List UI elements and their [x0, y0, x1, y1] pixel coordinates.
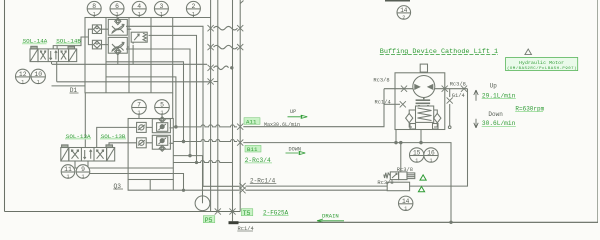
svg-text:1: 1 [404, 206, 407, 212]
coupling X at B11 start [237, 140, 243, 146]
marker green triangle 1 [420, 175, 426, 180]
svg-text:15: 15 [413, 150, 421, 157]
svg-text:1: 1 [415, 158, 418, 164]
wire: corridor nest w3 [149, 35, 197, 162]
wire: top exit to trunk [173, 17, 211, 19]
svg-text:2: 2 [191, 3, 195, 10]
pilot check valve PC1 [152, 119, 170, 133]
balloon 7 [132, 100, 147, 115]
label T5 [241, 209, 253, 217]
hose H3 flexible hose to pipe 3 [208, 65, 214, 71]
svg-text:Rc3/8: Rc3/8 [397, 167, 413, 173]
wire: trunk vertical pipe 1 [210, 0, 212, 212]
solenoid valve SOL-14 top tabs [31, 46, 37, 49]
wire: motor right port line [435, 88, 468, 90]
reducing valve RV1 [131, 32, 147, 42]
wire: brake valve feed from B11 [400, 143, 402, 172]
wire: G1/4 gauge stub [449, 89, 451, 126]
svg-text:1: 1 [192, 11, 195, 17]
arrow down [474, 119, 478, 128]
svg-text:11: 11 [64, 166, 72, 173]
wire: brake internal connects [409, 110, 437, 127]
wire: balloon leaders to manifold top [94, 15, 193, 17]
wire: corridor nest w2 [126, 26, 203, 186]
svg-text:1: 1 [81, 174, 84, 180]
wire: D1 block left drop to SOL-13 [84, 93, 86, 147]
label SOL-14B [56, 38, 82, 45]
solenoid SOL-14A coil [30, 49, 38, 62]
pilot check valve PC2 [152, 135, 170, 149]
svg-text:2: 2 [402, 15, 405, 21]
svg-text:T5: T5 [243, 210, 251, 217]
balloon 9 [76, 165, 90, 179]
balloon 12 [16, 69, 30, 83]
hose H1 flexible hose with couplings [208, 25, 214, 31]
label R=630rpm [515, 105, 544, 112]
wire: pilot line pair to brake valve subplate [246, 186, 388, 190]
label 2-FG25A [263, 209, 289, 216]
svg-text:G1/4: G1/4 [452, 93, 465, 99]
svg-text:1: 1 [138, 11, 141, 17]
wire: SOL-14 P rail [52, 62, 208, 65]
wire: Rc1/4 plugged stub [384, 103, 400, 105]
arrow up [474, 90, 478, 101]
label A11 [244, 118, 260, 126]
brake valve subplate [387, 182, 409, 191]
wire: right margin stub [597, 0, 599, 222]
motor M1 drive shaft [420, 64, 427, 72]
hose H2 flexible hose with couplings [208, 44, 214, 50]
svg-text:Down: Down [488, 111, 503, 118]
orifice left diamond [406, 113, 413, 122]
check valve CV4 (lower block lower) [137, 138, 147, 148]
svg-text:1: 1 [21, 79, 24, 85]
brake B1 disc stack [416, 98, 431, 107]
wire: P5 supply line horizontal [5, 211, 241, 213]
svg-text:1: 1 [137, 110, 140, 116]
wire: trunk vertical pipe 2 [217, 0, 219, 212]
label 2-Rc1/4 [250, 178, 276, 185]
svg-text:14: 14 [400, 7, 408, 14]
label box Hydraulic Motor [506, 58, 578, 71]
manifold D1 partition 1 [105, 18, 107, 93]
hydraulic motor M1 enclosure box [395, 73, 445, 130]
label B11 [245, 145, 261, 153]
node: w6 junction on A11 feed [175, 126, 177, 128]
svg-text:Rc3/8: Rc3/8 [377, 180, 393, 186]
label DRAIN with arrow [317, 213, 344, 223]
wire: trunk pipe 4 top hook [240, 1, 243, 4]
svg-text:Up: Up [490, 83, 498, 90]
manifold D1 partition 2 [128, 18, 130, 93]
wire: B11 work line [243, 143, 451, 223]
solenoid valve SOL-13 body [69, 148, 107, 162]
manifold Q3 block outline [128, 119, 173, 180]
coupling X motor left port [401, 86, 407, 92]
brake valve vent muffler [407, 173, 415, 179]
svg-text:1: 1 [160, 11, 163, 17]
label 2-Rc3/4 [245, 157, 273, 164]
wire: manifold bottom drops [150, 180, 173, 191]
wire: lower block internal connects [146, 127, 173, 143]
svg-text:B11: B11 [247, 146, 258, 153]
balloon 14 [399, 196, 413, 210]
coupling X motor right port [442, 86, 448, 92]
brake valve spring [384, 173, 391, 179]
wire: corridor nest w4 [126, 49, 190, 156]
coupling X right corner [461, 86, 467, 92]
label SOL-14A [22, 38, 48, 45]
label SOL-13B [100, 133, 126, 140]
wire: FC2 drop to P rail [117, 55, 119, 65]
check valve CV3 (lower block upper) [137, 122, 147, 132]
hose H4 short jog coupling [208, 78, 214, 84]
wire: SOL-13 A port riser [97, 127, 137, 147]
brake release valve V14 body [390, 172, 398, 180]
manifold D1 block outline [85, 18, 173, 93]
balloon 4 [132, 1, 146, 15]
wire: pilot feed upper to X pair [203, 185, 239, 187]
svg-text:1: 1 [93, 11, 96, 17]
svg-text:1: 1 [115, 11, 118, 17]
wire: SOL-14 T rail [57, 62, 211, 82]
svg-text:8: 8 [92, 3, 96, 10]
svg-text:Rc1/4: Rc1/4 [375, 100, 391, 106]
wire: RV1 pilot drop to rail [132, 46, 134, 65]
balloon 11 [61, 165, 75, 179]
wire: FC to RV [127, 29, 131, 47]
svg-text:3: 3 [159, 3, 163, 10]
coupling X on P line 1 [215, 208, 221, 214]
svg-text:Rc3/8: Rc3/8 [450, 82, 466, 88]
solenoid SOL-14B coil [69, 49, 77, 62]
title Buffing Device Cathode Lift 1 [380, 48, 498, 56]
label UP with arrow [288, 109, 308, 119]
label DOWN with arrow [286, 146, 306, 154]
svg-text:SOL-13A: SOL-13A [66, 133, 91, 140]
wire: SOL-14 drain rail short [52, 85, 86, 87]
wire: bottom drain header [239, 221, 599, 223]
svg-text:5: 5 [160, 102, 164, 109]
check valve CV2 (top box col1 lower) [92, 40, 101, 49]
svg-text:Rc3/8: Rc3/8 [373, 78, 389, 84]
wire: A11 feed from manifold with hops [173, 125, 237, 127]
coupling X at A11 start [237, 124, 243, 130]
wire: trunk vertical pipe 4 [239, 0, 241, 212]
coupling X pair at pilot lines start [239, 183, 245, 189]
solenoid SOL-13B coil [107, 148, 115, 162]
svg-text:6: 6 [115, 3, 119, 10]
svg-text:Hydraulic Motor: Hydraulic Motor [519, 60, 564, 66]
balloon 3 [154, 1, 168, 15]
wire: corridor nest w6 [106, 77, 176, 127]
svg-text:SOL-14B: SOL-14B [56, 38, 81, 45]
svg-text:(OM/BAS2RC/PcLBASH-P907): (OM/BAS2RC/PcLBASH-P907) [507, 66, 577, 71]
svg-text:9: 9 [81, 166, 85, 173]
balloon 16 [424, 148, 438, 162]
wire: motor left port line [384, 88, 413, 90]
label D1 [70, 87, 79, 94]
wire: CV bracket left [86, 29, 92, 44]
balloon 10 [31, 69, 45, 83]
wire: pilot feed lower / manifold drain line [128, 180, 239, 191]
svg-text:12: 12 [19, 71, 27, 78]
flow control FC1 with bypass check [108, 19, 127, 35]
svg-text:DRAIN: DRAIN [322, 213, 339, 220]
wire: staircase to trunk3 [173, 161, 232, 163]
solenoid valve SOL-13 arrows [72, 150, 79, 159]
coupling X plug Rc1/4 [400, 101, 406, 107]
label 30.6L/min [482, 120, 516, 127]
balloon 8 [87, 1, 101, 15]
svg-text:10: 10 [34, 71, 42, 78]
flow control FC2 with bypass check [108, 37, 127, 53]
svg-text:1: 1 [37, 79, 40, 85]
balloon 14/2 (top) [397, 6, 411, 20]
flange Rc1/4 connector [229, 221, 254, 232]
wire: cut-off line at sheet top [385, 0, 410, 2]
balloon 6 [110, 1, 124, 15]
svg-text:SOL-14A: SOL-14A [23, 38, 48, 45]
motor M1 circle [413, 76, 435, 98]
svg-text:A11: A11 [246, 118, 257, 125]
motor M1 inner triangles [415, 85, 433, 90]
label SOL-13A [65, 133, 91, 140]
svg-text:Max30.6L/min: Max30.6L/min [264, 122, 300, 128]
solenoid valve SOL-14 body [38, 49, 69, 62]
svg-text:4: 4 [137, 3, 141, 10]
wire: block right edge riser [172, 93, 174, 119]
wire: right leg down to brake valve [410, 89, 468, 186]
wire: corridor nest w5 [106, 62, 184, 142]
solenoid valve SOL-13 top tabs [62, 145, 68, 148]
label 29.1L/min [482, 92, 516, 99]
solenoid SOL-13A coil [61, 148, 69, 162]
svg-text:16: 16 [427, 150, 435, 157]
pressure gauge G1 [195, 196, 210, 211]
balloon 5 [155, 100, 170, 115]
wire: trunk vertical pipe 3 [232, 0, 234, 221]
wire: SOL-14 work port stubs [53, 37, 86, 49]
balloon 2 [186, 1, 200, 15]
wire: SOL-13 B port riser [109, 143, 137, 147]
brake B1 spring housing [416, 106, 434, 122]
svg-text:7: 7 [137, 102, 141, 109]
svg-text:1: 1 [160, 110, 163, 116]
wire: SOL-13 bottom runs [75, 161, 184, 190]
svg-text:SOL-13B: SOL-13B [101, 133, 126, 140]
wire: motor case drain drops [396, 130, 421, 143]
marker green triangle 2 [418, 187, 424, 192]
svg-text:P5: P5 [205, 217, 213, 224]
coupling X on P line 2 [229, 208, 235, 214]
node: w5 junction on B11 feed [182, 140, 184, 142]
label Q3 [113, 183, 123, 190]
marker delta triangle [525, 49, 532, 55]
svg-text:14: 14 [402, 198, 410, 205]
svg-text:UP: UP [290, 109, 296, 115]
svg-text:1: 1 [66, 174, 69, 180]
wire: A11 work line [243, 89, 384, 127]
solenoid valve SOL-14 arrows [41, 51, 46, 60]
svg-text:1: 1 [429, 158, 432, 164]
wire: staircase to gauge riser [173, 155, 202, 157]
wire: B11 feed from manifold with hops [173, 140, 237, 142]
label P5 [203, 216, 215, 224]
wire: sheet left border vertical [4, 0, 6, 212]
orifice right diamond [434, 113, 441, 122]
wire: CV1 to FC1 [102, 29, 109, 44]
check valve CV1 (top box col1 upper) [92, 25, 101, 34]
balloon 15 [410, 148, 424, 162]
manifold D1 partition 3 [150, 18, 152, 93]
